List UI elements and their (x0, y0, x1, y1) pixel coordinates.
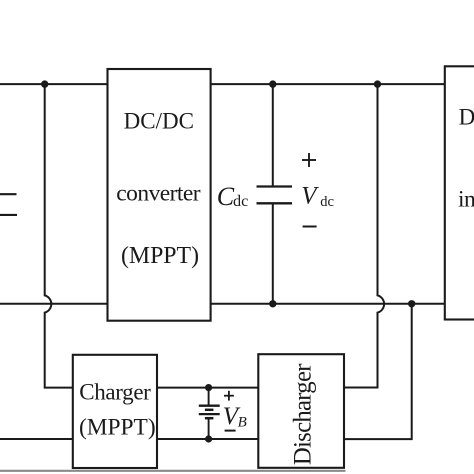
wire: top rail branch down to discharger with hop over bottom rail (344, 84, 384, 387)
wire: charger to discharger battery positive rail (157, 387, 258, 389)
block U4: Discharger (258, 354, 344, 468)
label - (battery) (225, 430, 236, 432)
node: battery negative (205, 435, 212, 442)
wire: capacitor top stem from top rail (272, 84, 274, 186)
node: top rail / discharger branch (374, 80, 381, 87)
node: top rail / capacitor (269, 80, 276, 87)
wire: PV negative bottom rail to DC/DC converter (left) (0, 303, 108, 305)
block U1: DC/DC converter (MPPT) (108, 69, 211, 321)
svg-text:(MPPT): (MPPT) (79, 414, 156, 440)
capacitor C_dc plates (257, 187, 293, 204)
wire: capacitor bottom stem to bottom rail (272, 203, 274, 303)
wire: charger to discharger battery negative rail (157, 438, 258, 440)
block U2: DC/AC inverter (partially cut at right edge) (445, 66, 474, 319)
battery V_B symbol (199, 388, 220, 439)
wire: battery negative rail from left edge to charger (0, 438, 73, 440)
label + (capacitor) (302, 153, 316, 167)
node: battery positive (205, 384, 212, 391)
wire: PV positive top rail to DC/DC converter (0, 83, 108, 85)
svg-text:Charger: Charger (79, 380, 151, 405)
wire: top rail DC/DC converter to DC/AC inverter (211, 83, 445, 85)
crop artifact: grey bottom line (0, 470, 346, 472)
svg-text:B: B (238, 414, 247, 430)
svg-text:Discharger: Discharger (290, 363, 317, 465)
node: bottom rail / capacitor (269, 300, 276, 307)
node: bottom rail / discharger branch (408, 300, 415, 307)
label + (battery) (224, 391, 234, 401)
block U3: Charger (MPPT) (73, 355, 157, 468)
svg-text:inverter: inverter (458, 187, 474, 213)
svg-text:(MPPT): (MPPT) (121, 243, 199, 269)
wire: vertical PV+ branch to charger with hop over bottom rail (45, 84, 73, 388)
wire: bottom rail branch down to discharger (344, 304, 412, 439)
svg-text:dc: dc (320, 194, 334, 210)
node: PV+ / charger branch (41, 80, 48, 87)
label - (capacitor) (303, 226, 317, 228)
svg-text:dc: dc (233, 192, 248, 210)
svg-text:DC/DC: DC/DC (124, 109, 194, 134)
svg-text:converter: converter (116, 181, 200, 207)
wire: bottom rail DC/DC converter to DC/AC inverter (211, 303, 445, 305)
PV array symbol (partial, cut at left edge) (0, 194, 17, 215)
svg-text:DC/AC: DC/AC (459, 105, 474, 130)
